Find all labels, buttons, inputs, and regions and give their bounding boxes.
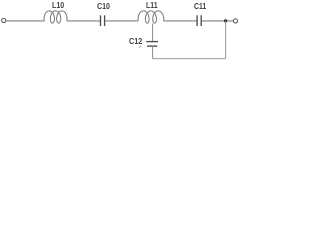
svg-text:C11: C11 (194, 1, 206, 11)
bottom return rail (153, 58, 226, 60)
capacitor C12 (146, 42, 158, 47)
input terminal (left) (2, 18, 6, 22)
svg-text:L11: L11 (146, 0, 158, 10)
svg-text:L10: L10 (52, 0, 64, 10)
capacitor C11 (197, 15, 201, 26)
wire: L10 to C10 (67, 20, 101, 22)
junction node dot (224, 19, 227, 22)
svg-text:C12: C12 (129, 36, 142, 46)
wire: L11 to C11 (164, 20, 197, 22)
scan artifact speck (139, 47, 142, 48)
inductor L11 (138, 11, 164, 23)
inductor L10 (44, 11, 67, 23)
wire: C11 to output terminal (201, 20, 233, 22)
wire: bottom rail up to junction (225, 21, 227, 59)
wire: C12 down to bottom rail (152, 46, 154, 58)
svg-text:C10: C10 (97, 1, 110, 11)
capacitor C10 (101, 15, 105, 26)
output terminal (right) (233, 19, 237, 23)
wire: C10 to L11 (105, 20, 139, 22)
wire: L11 tap down to C12 (152, 24, 154, 42)
wire: left terminal to L10 (6, 20, 45, 22)
